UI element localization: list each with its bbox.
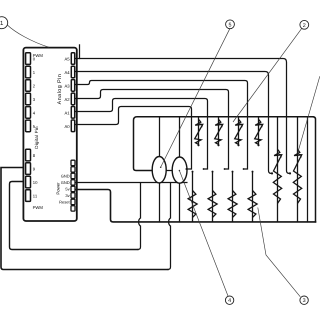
- sensor S3 upper: [235, 117, 243, 146]
- wire motor M2 bottom lead: [179, 183, 181, 222]
- sensor S9 right: [273, 117, 281, 222]
- node A4 wire end: [271, 172, 273, 174]
- callout 2: [300, 20, 309, 29]
- callout 5: [226, 20, 235, 29]
- svg-text:3: 3: [303, 298, 306, 304]
- svg-text:11: 11: [33, 194, 38, 199]
- node A1 hook end: [203, 168, 205, 170]
- svg-text:A2: A2: [64, 97, 70, 102]
- pin header digital 0-5: [26, 53, 31, 132]
- svg-text:10: 10: [33, 180, 38, 185]
- wire A5 stub: [79, 45, 81, 59]
- leader callout 4: [179, 170, 228, 296]
- microcontroller U1 Arduino box: [23, 48, 76, 221]
- callout 3: [300, 296, 308, 304]
- svg-text:GND: GND: [61, 174, 70, 179]
- motor M1: [152, 157, 166, 183]
- svg-text:Reset: Reset: [59, 200, 70, 205]
- leader callout 4 start tick: [179, 170, 181, 172]
- wire GND net: [76, 182, 187, 184]
- svg-text:PWM: PWM: [33, 205, 44, 210]
- svg-text:A3: A3: [64, 83, 70, 88]
- node top rail: [134, 117, 314, 171]
- sensor S10 right: [293, 117, 301, 222]
- svg-text:3v: 3v: [65, 193, 69, 198]
- svg-text:2: 2: [303, 23, 306, 29]
- sensor S8 lower: [248, 171, 257, 222]
- svg-text:A1: A1: [64, 110, 70, 115]
- sensor S2 upper: [215, 117, 223, 146]
- wire hop vertical right: [168, 183, 171, 270]
- leader callout 5: [161, 29, 230, 168]
- leader callout 5 end tick: [160, 167, 162, 169]
- callout 1: [0, 17, 8, 29]
- svg-text:5v: 5v: [65, 187, 69, 192]
- wire network right edge: [313, 117, 316, 222]
- motor M2: [172, 157, 187, 183]
- callout 4: [225, 296, 233, 304]
- wire right column: [307, 117, 309, 222]
- pin header analog A5-A0: [71, 53, 74, 132]
- node A2 hook end: [224, 168, 226, 170]
- svg-text:4: 4: [228, 298, 231, 304]
- wire digital pin 10 net: [10, 182, 139, 250]
- leader right edge fragment: [298, 76, 320, 152]
- sensor network: [185, 117, 301, 222]
- wire motor M1 top lead: [159, 117, 161, 157]
- sensor S5 lower: [188, 171, 197, 222]
- wire 5V net bottom rail: [76, 190, 316, 222]
- svg-text:Power: Power: [56, 182, 61, 195]
- svg-text:Digital Pin: Digital Pin: [34, 126, 39, 149]
- wire motor bridge: [166, 170, 172, 172]
- sensor S1 upper: [195, 117, 203, 146]
- wire A0 net: [76, 107, 192, 170]
- leader to MCU: [7, 25, 49, 48]
- leader callout 3: [258, 208, 301, 297]
- node A5 wire end: [289, 172, 291, 174]
- svg-text:A5: A5: [64, 57, 70, 62]
- svg-text:Analog Pin: Analog Pin: [57, 74, 63, 105]
- wire motor M1 bottom lead: [159, 183, 161, 222]
- wire A4 net: [76, 72, 272, 174]
- wire hop vertical left: [138, 183, 141, 250]
- sensor S6 lower: [208, 171, 217, 222]
- pin header power: [71, 160, 75, 211]
- leader callout 2: [233, 28, 302, 122]
- wire A5 net: [76, 59, 290, 174]
- svg-text:A4: A4: [64, 70, 70, 75]
- svg-text:GND: GND: [61, 180, 70, 185]
- svg-text:5: 5: [229, 22, 232, 28]
- wire A3 net: [76, 81, 248, 170]
- pin header digital 8-11: [26, 149, 31, 201]
- svg-text:A0: A0: [64, 124, 70, 129]
- sensor S4 upper: [255, 117, 263, 146]
- sensor S7 lower: [228, 171, 237, 222]
- wire motor M2 top lead: [179, 117, 181, 157]
- node A0 hook end: [185, 168, 187, 170]
- wire A1 net: [76, 99, 208, 170]
- node A3 hook end: [243, 168, 245, 170]
- wire digital pin 9 net: [1, 168, 168, 270]
- wire A2 net: [76, 90, 229, 170]
